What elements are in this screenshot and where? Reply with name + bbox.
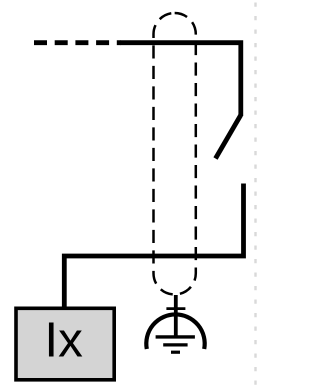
switch blade (open contact diagonal) xyxy=(216,115,241,159)
ground tick xyxy=(166,307,185,310)
wire (dashed supply line, top left) xyxy=(34,40,121,45)
wire (top horizontal into right vertical drop) xyxy=(121,43,241,116)
svg-text:Ix: Ix xyxy=(44,313,83,368)
ground bar long xyxy=(156,335,195,338)
wire (lower right vertical, bottom horizontal, stem into Ix box) xyxy=(64,184,243,308)
ground bar middle xyxy=(163,343,187,346)
page border (right, dotted gray) xyxy=(254,3,256,390)
dashed enclosure (stadium outline) xyxy=(154,13,196,295)
ground arc xyxy=(146,314,204,349)
current source box Ix xyxy=(16,308,114,380)
ground bar short xyxy=(171,351,180,354)
ground stem xyxy=(174,295,178,337)
